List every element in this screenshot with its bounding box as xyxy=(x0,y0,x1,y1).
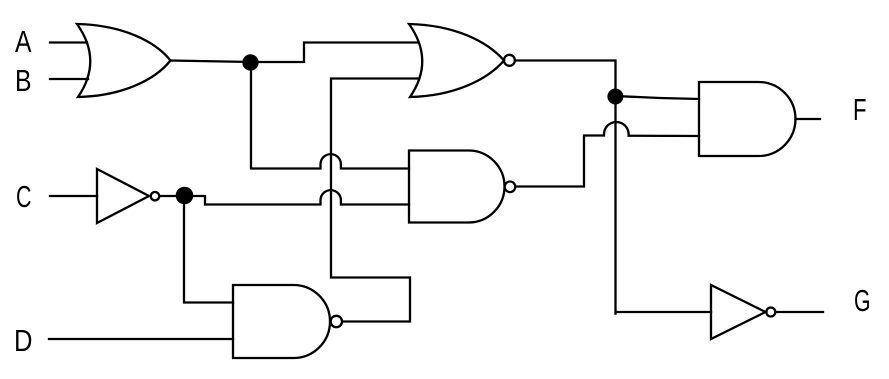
svg-text:A: A xyxy=(15,25,32,59)
wire junction down to NOT G input xyxy=(616,96,712,314)
middle NAND gate xyxy=(409,151,505,223)
middle NAND bubble xyxy=(505,182,516,193)
bottom NAND gate (C',D) xyxy=(233,285,330,358)
wire C input xyxy=(50,195,97,197)
wire junction to NOR top input xyxy=(251,43,418,63)
junction dot at OR output xyxy=(242,54,258,70)
NOR bubble xyxy=(504,55,515,66)
wire NOR output to right junction xyxy=(515,61,616,97)
wire D input xyxy=(49,338,233,340)
inverter NOT G triangle xyxy=(711,285,766,339)
svg-text:G: G xyxy=(854,284,871,318)
wire junction down to middle NAND top input (with hop over vertical) xyxy=(251,62,409,169)
inverter NOT G bubble xyxy=(766,308,775,317)
wire NOT G output xyxy=(775,311,823,313)
inverter NOT C bubble xyxy=(151,192,159,200)
wire inverter output to junction xyxy=(159,195,184,197)
wire junction down to bottom NAND top input xyxy=(184,196,233,303)
svg-text:F: F xyxy=(853,93,867,127)
svg-text:D: D xyxy=(14,324,33,358)
wire junction to middle NAND bottom input (with hop over vertical) xyxy=(184,190,409,204)
wire junction to AND top input xyxy=(616,96,700,99)
wire A input xyxy=(50,41,87,43)
wire OR output to junction xyxy=(171,61,252,63)
bottom NAND bubble xyxy=(331,316,342,327)
wire B input xyxy=(50,78,88,80)
OR gate (A,B) xyxy=(77,24,171,97)
svg-text:B: B xyxy=(15,64,32,98)
wire middle NAND output to AND bottom input (with hop over vertical) xyxy=(516,122,700,186)
AND gate output F xyxy=(699,82,795,156)
wire bottom NAND output up to NOR bottom input xyxy=(331,79,419,322)
NOR gate (top middle) xyxy=(409,24,504,97)
junction dot at NOR output net xyxy=(607,89,623,105)
inverter NOT C triangle xyxy=(97,169,149,223)
svg-text:C: C xyxy=(16,180,32,214)
wire AND output xyxy=(796,118,821,120)
junction dot at NOT C output xyxy=(176,187,194,205)
